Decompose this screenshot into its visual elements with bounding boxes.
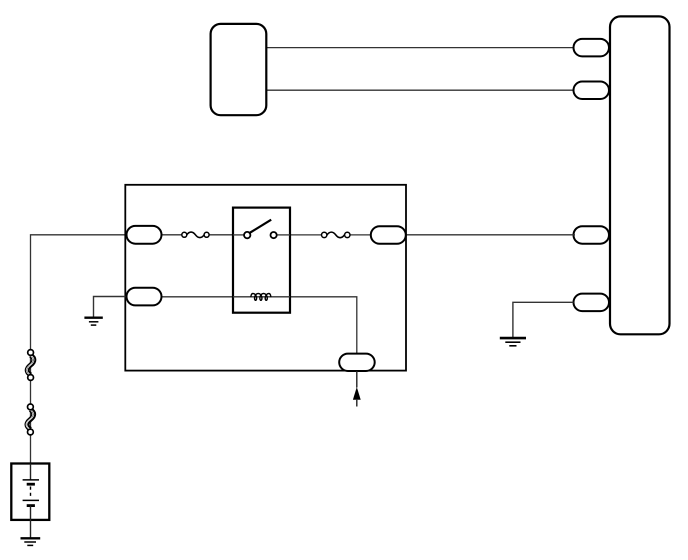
device M1 (top-left component) — [211, 24, 267, 115]
arrow: coil drive input signal into pin P4 — [353, 371, 361, 407]
wire W4: U1 pin R1 to connector pin C — [405, 234, 575, 236]
battery BT1 cells — [23, 464, 39, 538]
wire W6: U1 pin L1 to fuse F1 — [160, 234, 182, 236]
U1 pin L2 oval — [127, 288, 162, 306]
wire W5: connector pin D to ground — [513, 302, 574, 337]
relay K1 contact feed wires — [233, 234, 245, 236]
wire W8: relay contact to fuse F2 — [276, 234, 321, 236]
relay K1 box — [233, 208, 290, 313]
wire W3: battery net from left riser to U1 pin L1 — [31, 235, 128, 464]
wire W1: device M1 pin1 to connector pin A — [267, 47, 576, 49]
fuse F1 — [182, 232, 209, 238]
connector J1 pin A oval — [574, 39, 610, 57]
relay K1 contact terminal right — [271, 232, 277, 238]
fuse F2 — [322, 232, 350, 238]
control unit box U1 — [125, 185, 406, 371]
connector J1 body (right tall connector) — [610, 16, 670, 334]
connector J1 pin D oval — [574, 294, 610, 312]
wire W11: U1 pin L2 to relay coil and down to pin P4 — [160, 297, 357, 355]
U1 pin L1 oval — [127, 226, 162, 244]
connector J1 pin C oval — [574, 226, 610, 244]
U1 pin P4 oval (bottom, coil drive input) — [339, 354, 375, 371]
ground G3 (connector pin D) — [500, 338, 526, 346]
ground G2 (U1 pin L2) — [84, 318, 102, 325]
relay K1 coil — [251, 294, 271, 301]
wire W2: device M1 pin2 to connector pin B — [267, 89, 576, 91]
U1 pin R1 oval — [371, 226, 406, 244]
wire W7: fuse F1 to relay contact — [209, 234, 245, 236]
wire W9: fuse F2 to U1 pin R1 — [350, 234, 372, 236]
relay K1 switch blade — [250, 220, 272, 233]
fusible link FL2 — [26, 404, 34, 435]
battery BT1 box — [11, 464, 49, 520]
connector J1 pin B oval — [574, 82, 610, 100]
fusible link FL1 — [26, 350, 34, 381]
wire W10: U1 pin L2 to ground — [94, 297, 128, 318]
relay K1 coil feed wire inside — [233, 296, 290, 298]
ground G1 (battery negative) — [21, 538, 41, 545]
relay K1 contact terminal left — [244, 232, 250, 238]
